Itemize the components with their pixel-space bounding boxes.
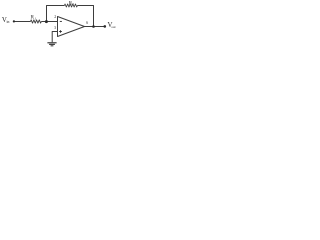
svg-text:out: out [111, 25, 115, 29]
svg-text:6: 6 [86, 21, 88, 25]
svg-text:1: 1 [35, 16, 37, 20]
svg-text:3: 3 [54, 26, 56, 30]
svg-text:2: 2 [72, 2, 74, 6]
svg-text:in: in [7, 20, 10, 24]
svg-text:2: 2 [54, 15, 56, 19]
